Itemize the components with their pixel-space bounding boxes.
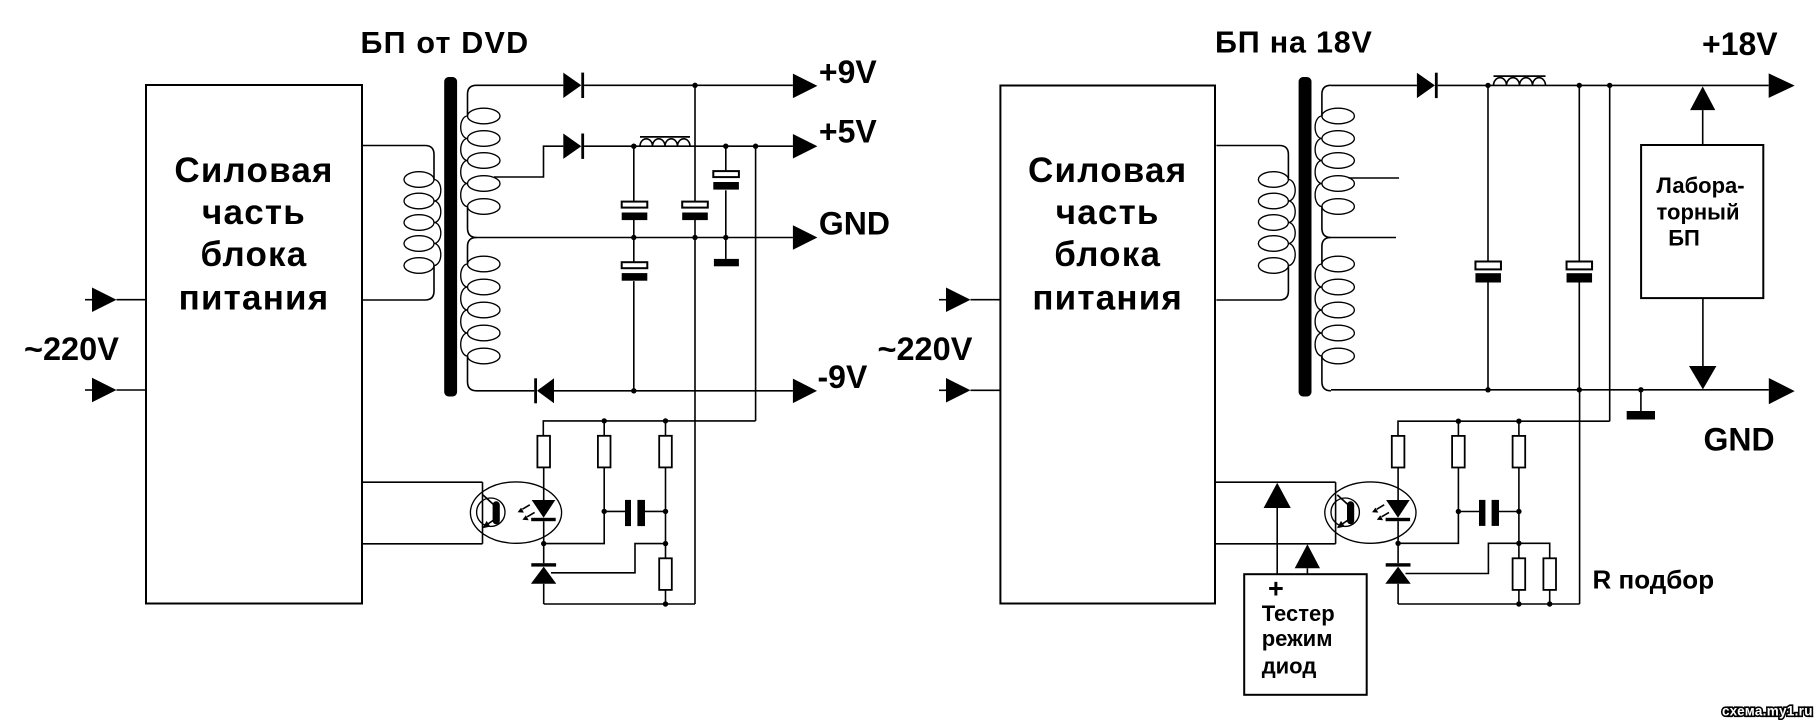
diode D1 (+9V rectifier): [563, 73, 581, 98]
svg-text:часть: часть: [1056, 193, 1160, 232]
junction LED / zener: [541, 541, 546, 546]
svg-text:схема.my1.ru: схема.my1.ru: [1722, 704, 1813, 719]
capacitor C2' (+18V filter): [1567, 262, 1593, 270]
wire +5V tap from winding: [494, 146, 563, 177]
diode D1' (+18V rectifier): [1417, 73, 1435, 98]
junction +18V / C1': [1485, 83, 1490, 88]
junction R3 / C5: [663, 509, 668, 514]
wire zener to bottom rail: [543, 584, 545, 604]
output arrow +18V: [1769, 73, 1795, 98]
wire LED' cathode to junction: [1397, 521, 1399, 543]
diode D2 (+5V rectifier): [563, 134, 581, 159]
wire C3 stems: [725, 146, 727, 171]
wire R3/R4 node: [665, 511, 667, 543]
zener diode VD1 (left): [531, 563, 556, 566]
optocoupler U1 (left): [470, 482, 561, 543]
svg-text:R подбор: R подбор: [1593, 565, 1715, 595]
capacitor C4 (-9V filter): [622, 262, 648, 268]
wire feedback from +18V down: [1609, 85, 1611, 421]
up arrow to +18V (lab PSU +): [1690, 86, 1715, 110]
wire R2 node to LED cathode: [544, 511, 605, 543]
ground symbol stem: [1640, 390, 1642, 411]
svg-text:Силовая: Силовая: [174, 151, 333, 190]
wire -9V to output: [554, 390, 793, 392]
junction R3 / R4 / zener jog: [663, 541, 668, 546]
ground symbol bar: [1627, 411, 1655, 420]
junction rail / R2': [1456, 419, 1461, 424]
wire opto stub vertical (right): [1335, 482, 1337, 544]
svg-text:Лабора-: Лабора-: [1656, 173, 1744, 198]
resistor R4: [659, 558, 672, 590]
wire R3 stem: [665, 421, 667, 436]
junction +5V / C1 / L1: [631, 144, 636, 149]
resistor R4': [1513, 558, 1526, 590]
wire feedback rail (right): [1398, 421, 1610, 436]
wire R3'/R4' node: [1518, 512, 1520, 544]
wire R3' stem: [1518, 421, 1520, 436]
input arrow ~220V line 1 (right): [939, 299, 946, 301]
transformer primary winding (left): [362, 146, 434, 180]
junction GND / C2: [692, 235, 697, 240]
junction GND / C3: [723, 235, 728, 240]
up arrow tester to collector: [1264, 483, 1291, 508]
junction GND / C2' / bottom rail: [1577, 387, 1582, 392]
tester box: [1244, 574, 1367, 695]
wire R5' to bottom rail: [1549, 590, 1551, 604]
svg-text:~220V: ~220V: [24, 331, 119, 367]
svg-text:питания: питания: [1032, 279, 1183, 318]
junction +18V / feedback divider: [1607, 83, 1612, 88]
wire C2' stems: [1578, 85, 1580, 261]
svg-text:Силовая: Силовая: [1028, 151, 1187, 190]
up arrow tester to emitter: [1295, 544, 1320, 568]
wire opto to power block top (left): [362, 481, 483, 483]
svg-text:GND: GND: [1704, 422, 1775, 458]
transformer secondary bottom winding (left): [468, 238, 477, 265]
svg-text:+: +: [1268, 574, 1284, 604]
wire bottom rail (right): [1398, 603, 1580, 605]
junction +5V / feedback divider: [753, 144, 758, 149]
wire R4' stem: [1518, 543, 1520, 558]
junction rail / R2: [602, 418, 607, 423]
zener diode VD1' (right): [1386, 563, 1411, 566]
wire R4' to bottom rail: [1518, 590, 1520, 604]
junction R4' / bottom rail: [1516, 601, 1521, 606]
svg-text:+5V: +5V: [819, 114, 877, 150]
wire LED junction to zener: [543, 544, 545, 564]
resistor R1: [537, 436, 550, 468]
down arrow to GND (lab PSU -): [1689, 366, 1716, 389]
wire C4 stems: [633, 238, 635, 263]
transformer primary winding (right): [1216, 146, 1288, 180]
wire bottom rail (left): [544, 603, 695, 605]
power block box (right): [1000, 86, 1215, 604]
transformer core (right): [1299, 77, 1312, 397]
plate: C3 stub bar: [714, 259, 739, 266]
resistor R5' (R подбор): [1543, 558, 1556, 590]
svg-text:торный: торный: [1657, 200, 1740, 225]
lab PSU box: [1641, 145, 1763, 298]
wire lab PSU + stem: [1702, 110, 1704, 145]
output arrow +5V: [793, 134, 818, 159]
transformer core (left): [444, 77, 457, 397]
wire -9V from winding bottom: [477, 390, 535, 392]
wire C3 negative stub below GND: [725, 238, 727, 259]
wire R1 to opto LED: [543, 467, 545, 500]
wire +9V to output: [584, 84, 793, 86]
wire R3 to C5: [665, 467, 667, 511]
transformer secondary bottom winding (right): [1322, 238, 1331, 265]
junction R2 / C5: [602, 509, 607, 514]
capacitor C5' (feedback): [1458, 511, 1479, 513]
wire zener' to bottom rail: [1397, 584, 1399, 604]
svg-text:режим: режим: [1262, 626, 1333, 651]
svg-text:+18V: +18V: [1702, 26, 1778, 62]
junction R2' / C5': [1456, 509, 1461, 514]
junction GND / C1': [1485, 387, 1490, 392]
resistor R2': [1452, 436, 1465, 468]
wire secondary tap stub 2 (right): [1331, 237, 1396, 239]
junction R4 / bottom rail: [663, 601, 668, 606]
input arrow ~220V line 1 (left): [85, 299, 92, 301]
wire +18V to output: [1438, 84, 1769, 86]
wire tester arrow 1 stem: [1276, 508, 1278, 574]
resistor R3: [659, 436, 672, 468]
wire secondary tap stub 1 (right): [1349, 177, 1400, 179]
junction R5' / bottom rail: [1547, 601, 1552, 606]
junction GND / C1 / C4: [631, 235, 636, 240]
svg-text:блока: блока: [201, 235, 308, 274]
junction +5V / C3: [723, 144, 728, 149]
wire C1 stems: [633, 146, 635, 201]
wire feedback from +5V down: [755, 146, 757, 421]
junction R3' / C5': [1516, 509, 1521, 514]
junction GND / ground symbol: [1638, 387, 1643, 392]
svg-text:~220V: ~220V: [878, 331, 973, 367]
transformer secondary top winding (left): [468, 85, 477, 116]
wire +9V from secondary: [477, 84, 564, 86]
wire opto to power block bottom (left): [362, 543, 483, 545]
wire jog to zener: [551, 544, 666, 573]
svg-text:часть: часть: [202, 193, 306, 232]
junction R3' / R4' / jog: [1516, 541, 1521, 546]
wire R5' branch: [1519, 543, 1550, 558]
diode D3 (-9V rectifier): [534, 378, 537, 403]
resistor R3': [1513, 436, 1526, 468]
svg-text:БП от DVD: БП от DVD: [361, 26, 530, 60]
input arrow ~220V line 2 (left): [85, 389, 92, 391]
junction +9V / C2: [692, 83, 697, 88]
wire opto to power block bottom (right): [1215, 543, 1336, 545]
wire R4 to bottom rail: [665, 590, 667, 604]
wire +5V after diode: [584, 145, 793, 147]
inductor L1 (+5V filter choke): [640, 139, 690, 146]
wire GND from winding center tap: [477, 237, 793, 239]
output arrow GND: [793, 225, 818, 250]
capacitor C3: [713, 171, 739, 177]
wire R2 stem: [603, 421, 605, 436]
wire LED' junction to zener': [1397, 543, 1399, 563]
wire R2' node to LED cathode: [1398, 512, 1458, 544]
wire R2 to C5: [603, 467, 605, 511]
svg-text:диод: диод: [1262, 653, 1317, 678]
wire R2' stem: [1457, 421, 1459, 436]
wire R2' to C5': [1457, 468, 1459, 512]
wire +18V from secondary: [1331, 84, 1417, 86]
capacitor C5 (feedback): [604, 510, 625, 512]
power block box (left): [146, 85, 362, 604]
capacitor C1' (+18V filter): [1475, 262, 1501, 270]
junction rail / R3': [1516, 419, 1521, 424]
output arrow +9V: [793, 74, 818, 99]
svg-text:БП на 18V: БП на 18V: [1215, 26, 1373, 60]
wire tester arrow 2 stem: [1306, 568, 1308, 574]
svg-text:БП: БП: [1668, 226, 1700, 251]
junction -9V / C4: [631, 388, 636, 393]
resistor R2: [598, 436, 611, 468]
wire opto stub vertical (left): [482, 482, 484, 544]
svg-text:блока: блока: [1054, 235, 1161, 274]
wire opto to power block top (right): [1215, 481, 1336, 483]
resistor R1': [1392, 436, 1405, 468]
wire feedback rail: [543, 421, 755, 436]
svg-text:питания: питания: [179, 279, 330, 318]
junction LED' / zener': [1395, 541, 1400, 546]
svg-text:Тестер: Тестер: [1262, 601, 1335, 626]
wire LED cathode to junction: [543, 521, 545, 543]
wire C2 stem from +9V: [694, 85, 696, 201]
inductor L1' (+18V choke): [1494, 78, 1546, 86]
svg-text:+9V: +9V: [819, 54, 877, 90]
wire lab PSU - stem: [1702, 298, 1704, 366]
optocoupler U1' (right): [1325, 482, 1416, 543]
junction rail / R3: [663, 418, 668, 423]
wire R1' to opto LED: [1397, 468, 1399, 501]
capacitor C1 (+5V filter): [622, 202, 648, 208]
wire GND-to-bottom-rail drop (left): [694, 238, 696, 605]
output arrow GND (right): [1769, 378, 1795, 404]
svg-text:-9V: -9V: [818, 359, 868, 395]
input arrow ~220V line 2 (right): [939, 389, 946, 391]
wire R4 stem: [665, 544, 667, 559]
transformer secondary top winding (right): [1322, 85, 1331, 116]
wire C1' stems: [1487, 85, 1489, 261]
capacitor C2 (+9V filter): [682, 202, 708, 208]
output arrow -9V: [793, 379, 817, 404]
wire GND rail (right): [1331, 389, 1769, 391]
svg-text:GND: GND: [819, 206, 890, 242]
junction +18V / C2': [1577, 83, 1582, 88]
wire bottom rail to GND (right): [1579, 390, 1581, 604]
wire jog to zener (right): [1406, 543, 1519, 573]
wire R3' to C5': [1518, 468, 1520, 512]
